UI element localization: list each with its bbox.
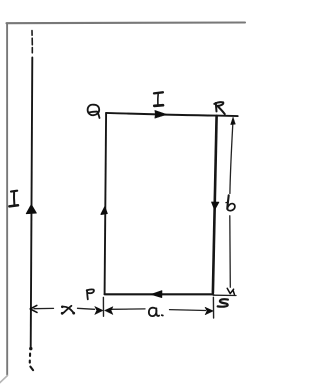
- label x: [62, 306, 74, 314]
- dimension line b lower segment: [229, 216, 232, 287]
- wire W1 dotted continuation bottom: [30, 354, 33, 371]
- frame top border: [7, 21, 246, 24]
- wire W1 long straight wire dashed upper part: [31, 31, 33, 53]
- arrowhead current direction on QR (right): [155, 110, 167, 118]
- wire SP bottom side of loop: [105, 293, 214, 295]
- arrowhead x dimension right (at tick under P): [95, 306, 103, 314]
- node label S: [218, 299, 228, 306]
- label x stroke end blobs: [61, 306, 75, 315]
- arrowhead current direction on RS (down): [212, 202, 219, 210]
- label I (current in loop, above QR): [154, 92, 163, 106]
- dimension line a right segment: [170, 309, 206, 312]
- arrowhead current direction on SP (left): [151, 291, 162, 298]
- wire RS right side of loop: [213, 116, 217, 293]
- node label R: [214, 102, 225, 114]
- frame left border: [6, 23, 8, 375]
- arrowhead a dimension right (at tick under S): [205, 307, 213, 315]
- tick under S corner: [212, 297, 214, 318]
- arrowhead current direction on wire W1 (up): [26, 205, 36, 214]
- wire bottom extension tick right of S: [213, 294, 236, 296]
- arrowhead current direction on PQ (up): [101, 206, 108, 214]
- arrowhead x dimension left (open, at wire): [30, 305, 37, 312]
- tick under P corner: [102, 297, 104, 316]
- wire PQ left side of loop: [105, 113, 107, 294]
- dimension line b (right of loop) upper segment: [230, 124, 233, 193]
- arrowhead a dimension left (at tick under P): [105, 307, 113, 315]
- wire QR top side of loop: [106, 113, 238, 116]
- node label Q: [88, 105, 100, 118]
- arrowhead b dimension bottom (down): [227, 288, 234, 294]
- label b: [226, 195, 235, 210]
- dimension line x right segment: [78, 308, 95, 309]
- dimension line a left segment: [111, 308, 145, 310]
- wire W1 long straight wire solid part: [31, 58, 33, 349]
- dimension line x left segment: [34, 307, 54, 309]
- node label P: [87, 289, 94, 299]
- label I (current in long wire): [9, 191, 18, 207]
- arrowhead b dimension top (up): [231, 117, 236, 124]
- label a: [149, 308, 163, 316]
- wire W1 end blob: [29, 347, 32, 350]
- page corner artifact bottom-left: [0, 376, 8, 384]
